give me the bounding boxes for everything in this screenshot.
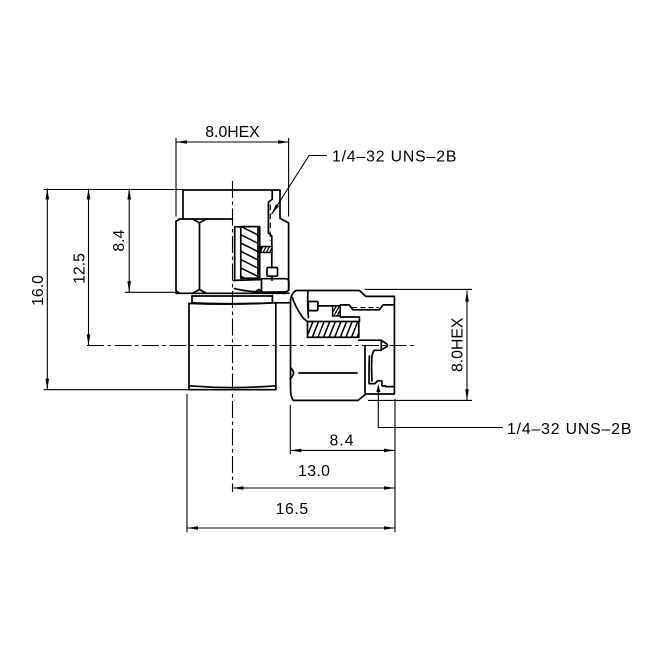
hidden thread line right connector — [352, 307, 378, 309]
right contact bead hatch — [330, 303, 348, 317]
svg-text:12.5: 12.5 — [71, 253, 88, 284]
svg-text:8.0HEX: 8.0HEX — [205, 124, 260, 141]
arrowheads 16.0 — [46, 189, 50, 200]
right hex facet line (section half) — [307, 291, 310, 318]
thread notch steps at bottom — [369, 381, 394, 387]
dimension line top 8.0HEX — [176, 141, 289, 143]
top hex right section wall — [284, 223, 289, 294]
ring under hex: top edge — [192, 295, 272, 297]
right hex left end arcs — [291, 291, 297, 401]
right thread relief slot wall — [340, 305, 394, 310]
right step line above dielectric — [340, 316, 359, 322]
thread relief curve below pin (outer) — [372, 350, 375, 381]
vertical centerline — [232, 181, 234, 492]
right dielectric hatch lines — [300, 312, 373, 340]
svg-text:16.5: 16.5 — [276, 501, 309, 518]
extension line bottom (right 8.0HEX dim) — [368, 399, 472, 401]
center pin cap base — [380, 340, 382, 350]
ring under hex: bottom arc — [192, 302, 272, 305]
top washer joint line — [261, 279, 263, 292]
extension line top (right 8.0HEX dim) — [365, 288, 472, 290]
right hex chamfer arc upper-left facet — [292, 297, 307, 321]
center pin body lines — [359, 340, 382, 350]
top hex chamfer V (top edge) — [193, 219, 207, 223]
right contact stem to bead — [318, 305, 333, 307]
top hex facet line — [199, 223, 201, 290]
arrowheads 13.0 — [233, 486, 244, 490]
right dielectric hatch outline — [308, 322, 359, 338]
arrowheads 8.4 left — [127, 189, 131, 200]
right hex chamfer V on left edge — [291, 368, 294, 379]
right connector hex and barrel outline — [294, 291, 395, 401]
leader line bottom 1/4-32 UNS-2B — [378, 389, 503, 428]
svg-text:1/4–32 UNS–2B: 1/4–32 UNS–2B — [507, 421, 632, 438]
top hex nut top edge — [176, 219, 233, 222]
top connector thread relief slot wall — [268, 190, 272, 247]
top dielectric outer wall line — [259, 227, 261, 278]
leader line top 1/4-32 UNS-2B — [272, 156, 328, 215]
arrowheads 8.4 bottom — [290, 449, 301, 453]
top hex chamfer V (bottom left) — [193, 290, 207, 294]
svg-text:13.0: 13.0 — [298, 463, 330, 480]
dimension line 16.0 — [46, 189, 48, 390]
dimension line right 8.0HEX — [466, 291, 468, 401]
dimension line 12.5 — [88, 189, 90, 346]
extension line hex bottom (8.4 left dim) — [125, 291, 178, 293]
top dielectric hatch outline — [241, 227, 258, 279]
hidden thread line top connector — [269, 205, 271, 242]
top contact bead outline — [261, 247, 272, 253]
right hex-barrel boundary below axis — [364, 346, 366, 393]
top connector bore wall — [235, 227, 241, 281]
top contact stem below square — [271, 276, 273, 280]
arrowheads 16.5 — [187, 526, 198, 530]
ring under hex: side edges — [192, 296, 272, 303]
arrowhead top leader — [272, 204, 279, 214]
dimension line 13.0 — [233, 487, 396, 489]
thread relief curve below pin (inner) — [368, 356, 370, 384]
right contact square — [308, 302, 318, 311]
arrowheads right 8.0HEX — [465, 291, 469, 302]
body cylinder bottom edge — [189, 389, 276, 391]
body cylinder side edges — [189, 303, 276, 390]
extension line mating face (bottom dims) — [394, 399, 396, 532]
extension line body left edge (16.5 dim) — [186, 394, 188, 532]
extension line bottom of body (16.0 dim) — [44, 389, 190, 391]
dimension line 8.4 left — [128, 189, 130, 293]
top connector coupling-nut barrel outline — [183, 190, 288, 223]
horizontal centerline — [87, 345, 415, 347]
top dielectric hatch lines — [236, 216, 264, 288]
body cylinder top arc — [189, 303, 276, 305]
top contact wall below bead — [271, 253, 273, 268]
center pin bullet tip — [381, 341, 387, 351]
top hex chamfer V (bottom right) — [253, 290, 265, 294]
top hex nut left edge — [176, 222, 180, 294]
neck line to right connector — [272, 302, 289, 304]
top contact square — [267, 268, 278, 277]
arrowheads 12.5 — [87, 189, 91, 200]
right hex facet line (lower half) — [299, 372, 357, 374]
dimension line 16.5 — [187, 527, 395, 529]
extension line right hex left edge (8.4 bottom dim) — [289, 405, 291, 455]
extension line top of part (left dims) — [44, 189, 184, 191]
dimension line 8.4 bottom — [290, 449, 395, 451]
body cylinder bottom arc — [189, 386, 276, 388]
arrowhead bottom leader — [376, 384, 380, 392]
extension lines for top 8.0HEX dim — [176, 138, 289, 217]
svg-text:8.0HEX: 8.0HEX — [450, 317, 467, 372]
svg-text:1/4–32 UNS–2B: 1/4–32 UNS–2B — [332, 148, 457, 165]
svg-text:8.4: 8.4 — [111, 230, 128, 252]
svg-text:8.4: 8.4 — [330, 433, 355, 450]
right contact bead outline — [333, 306, 341, 316]
arrowheads top 8.0HEX — [176, 140, 187, 144]
top washer piece outline — [234, 279, 289, 293]
top hex bottom edge — [176, 292, 289, 294]
svg-text:16.0: 16.0 — [30, 275, 47, 306]
top contact bead hatch — [259, 243, 278, 254]
